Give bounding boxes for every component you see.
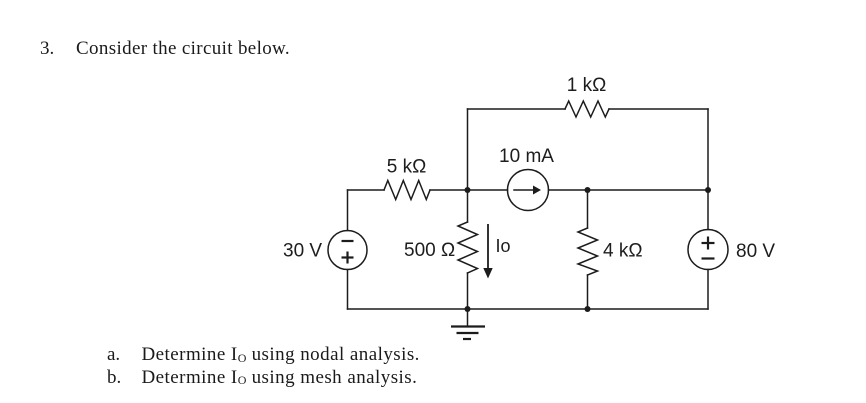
node C junction dot bbox=[705, 187, 711, 193]
ground bar 1 bbox=[451, 325, 485, 327]
current source I1 arrow bbox=[514, 189, 533, 191]
wire V2 bottom lead bbox=[707, 270, 709, 310]
wire top rail left segment bbox=[468, 108, 566, 110]
ground bar 3 bbox=[463, 338, 471, 340]
resistor R3 500 Ω top lead bbox=[467, 190, 469, 222]
item b text bbox=[142, 368, 418, 389]
wire right column from top rail to middle rail bbox=[707, 109, 709, 190]
resistor R2 5 kΩ bbox=[384, 181, 430, 200]
svg-text:500 Ω: 500 Ω bbox=[404, 240, 455, 261]
resistor R4 4 kΩ body bbox=[578, 228, 598, 275]
wire top rail right segment bbox=[609, 108, 708, 110]
wire middle rail from V1 to R2 bbox=[348, 189, 385, 191]
voltage source V2 80 V circle bbox=[688, 230, 728, 270]
svg-text:30 V: 30 V bbox=[283, 241, 322, 262]
node A junction dot bbox=[465, 187, 471, 193]
wire left column from top rail to middle rail bbox=[467, 109, 469, 190]
resistor R1 1 kΩ bbox=[565, 101, 609, 117]
item a text bbox=[142, 345, 420, 366]
wire V1 bottom lead bbox=[347, 270, 349, 310]
wire middle rail from R2 to node A bbox=[430, 189, 508, 191]
problem number text bbox=[40, 39, 54, 58]
svg-text:Io: Io bbox=[496, 236, 511, 256]
wire bottom rail bbox=[348, 308, 709, 310]
resistor R4 4 kΩ top lead bbox=[587, 190, 589, 228]
wire middle rail from I1 to node B bbox=[549, 189, 709, 191]
node D junction dot (R4 bottom) bbox=[585, 306, 591, 312]
svg-text:80 V: 80 V bbox=[736, 241, 775, 262]
V1 30 V plus sign bbox=[342, 256, 354, 258]
V2 80 V minus sign bbox=[702, 257, 715, 259]
V2 80 V plus sign bbox=[702, 242, 715, 244]
voltage source V1 30 V circle bbox=[328, 231, 367, 270]
ground bar 2 bbox=[457, 332, 479, 334]
item b marker bbox=[107, 368, 121, 387]
resistor R4 4 kΩ bottom lead bbox=[587, 275, 589, 309]
resistor R3 500 Ω body bbox=[458, 222, 478, 273]
svg-text:4 kΩ: 4 kΩ bbox=[603, 241, 643, 262]
current source I1 10 mA circle bbox=[508, 170, 549, 211]
ground stub bbox=[467, 309, 469, 327]
V1 30 V minus sign bbox=[342, 240, 354, 242]
problem title text bbox=[76, 39, 290, 58]
ground node junction dot bbox=[465, 306, 471, 312]
node B junction dot bbox=[585, 187, 591, 193]
current source I1 arrowhead bbox=[533, 186, 541, 195]
wire V1 top lead bbox=[347, 190, 349, 231]
svg-text:10 mA: 10 mA bbox=[499, 146, 554, 167]
Io current arrow bbox=[483, 224, 492, 279]
svg-text:1 kΩ: 1 kΩ bbox=[567, 75, 607, 96]
wire V2 top lead bbox=[707, 190, 709, 230]
svg-text:5 kΩ: 5 kΩ bbox=[387, 157, 427, 178]
item a marker bbox=[107, 345, 120, 364]
resistor R3 500 Ω bottom lead bbox=[467, 273, 469, 309]
